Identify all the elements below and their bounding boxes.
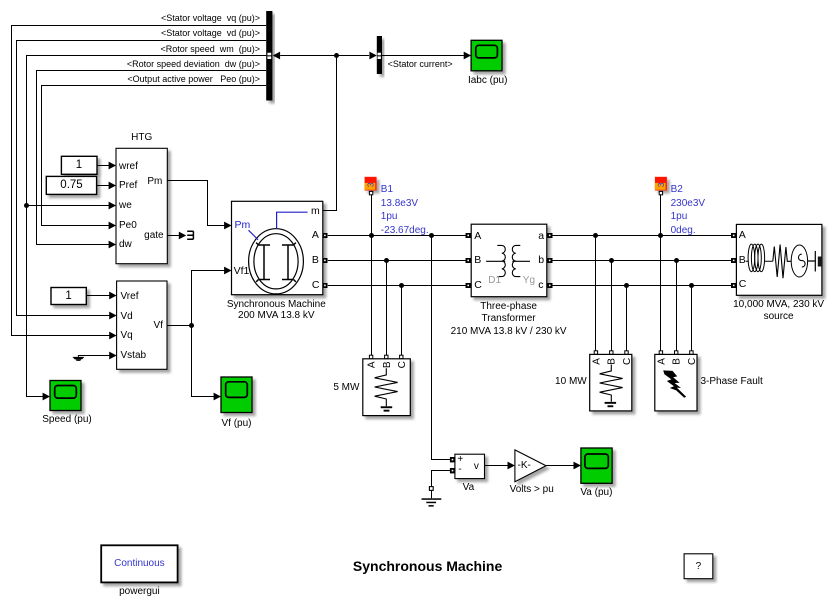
label signal vq [161,12,260,25]
svg-text:A: A [656,358,667,365]
constant Pref 0.75 [46,176,96,194]
scope Vf [221,377,252,413]
block three-phase fault [655,354,698,411]
pin source C [739,278,747,291]
node B/5MW junction [384,258,389,263]
wire phase b transformer to source [552,260,731,262]
constant wref 1 [61,156,97,174]
wire vd (bus selector out 2 to excitation Vd) [17,41,267,316]
block help ? [684,554,713,579]
arrow into excitation Vstab [109,352,116,360]
arrow into excitation Vref [109,292,116,300]
block B1 load flow bus [365,177,377,191]
ground G1 (Vstab) [72,357,84,361]
arrowheads [43,52,581,470]
wire machine m to bus selectors [280,56,369,211]
port transformer A [466,233,472,238]
node A/B1 junction [369,233,374,238]
scope Va pu [581,448,612,483]
wire B2 tap to fault A [660,195,662,351]
wire tap to 5MW load C [401,286,403,356]
label transformer line2 [482,312,536,325]
wire phase B machine to transformer [328,260,466,262]
arrow into HTG Pref [109,182,116,190]
wire wm (bus selector out 3 to HTG we and Speed scope) [27,56,267,397]
node Vf junction [189,323,194,328]
pin transformer b [538,254,544,267]
label Va [463,481,475,494]
pin HTG Pref [119,179,137,192]
label winding Yg [523,274,535,287]
port transformer a [547,233,553,238]
block B2 load flow bus [655,177,667,191]
port fault B [675,351,678,354]
label signal wm [160,43,260,56]
arrow into bus selector 2 [369,52,376,60]
pin machine m [311,205,320,218]
port B2 [659,191,662,194]
pin source B [739,254,746,267]
svg-text:C: C [397,361,408,368]
port transformer b [547,258,553,263]
pin HTG wref [119,160,138,173]
pin machine C [312,279,320,292]
label signal vd [161,27,260,40]
value gain -K- [518,459,531,472]
wire const Vref to excitation [86,295,110,297]
label 5MW [333,381,359,394]
value Vref 1 [65,290,71,303]
port 10MW A [594,351,597,354]
wire HTG gate to terminator [167,235,179,237]
node A/Va junction [429,233,434,238]
pin Va minus [458,463,461,476]
scope Iabc [471,40,502,71]
arrow into terminator [179,232,186,240]
label gain [510,483,554,496]
bus selector 2 [377,36,382,74]
port source B [731,258,737,263]
label Iabc scope [468,74,507,87]
node c/fault junction [689,283,694,288]
arrow into HTG dw [109,241,116,249]
block Va voltage measurement [455,454,485,478]
svg-text:B: B [672,358,683,365]
port fault C [690,351,693,354]
wire HTG Pm to machine Pm [167,181,224,226]
block source 10000MVA [736,224,822,295]
wire tap to 5MW load B [386,261,388,356]
wire bus selector 2 to Iabc scope [382,55,464,57]
value Pref 0.75 [60,179,82,192]
svg-text:B: B [607,358,618,365]
port machine A [323,233,328,238]
pin Va plus [457,453,463,466]
label transformer line3 [451,325,567,338]
svg-text:A: A [367,361,378,368]
arrow into gain [508,462,515,470]
block synchronous machine [232,201,323,294]
block three-phase transformer [471,224,547,297]
port Va plus [450,457,455,462]
wire tap to 10MW load C [626,286,628,351]
value wref 1 [76,159,82,172]
svg-text:3: 3 [656,182,666,187]
pin machine B [312,254,319,267]
port Va minus [450,468,455,473]
pin transformer B [474,254,481,267]
block powergui [101,545,177,582]
wire phase C machine to transformer [328,285,466,287]
arrow into machine Vf1 [224,267,231,275]
svg-text:C: C [622,358,633,365]
block 10MW load [590,354,633,411]
arrow into HTG wref [109,162,116,170]
pin source A [739,229,746,242]
label 10MW [555,375,587,388]
label winding D1 [488,274,501,287]
label machine line1 [227,298,326,311]
port 10MW C [625,351,628,354]
pin HTG dw [119,238,132,251]
port transformer B [466,258,472,263]
pin transformer C [474,279,482,292]
svg-text:B: B [382,361,393,368]
wire phase A machine to transformer [328,235,466,237]
port 5MW A [369,355,372,358]
port 5MW B [385,355,388,358]
label Speed scope [42,413,91,426]
port machine B [323,258,328,263]
node a/10MW junction [593,233,598,238]
wire tap to fault C [691,286,693,351]
label Va scope [580,486,612,499]
gain Volts to pu [515,450,546,482]
port transformer C [466,283,472,288]
pin HTG we [119,199,132,212]
label B1 values [381,183,429,237]
svg-text:3: 3 [366,182,376,187]
arrow into Vf scope [214,393,221,401]
pin excitation Vq [121,329,133,342]
ground G2 (Va minus) [422,487,442,507]
scope Speed [50,381,81,411]
label powergui [119,585,160,598]
terminator T1 (gate) [187,231,193,239]
label transformer line1 [480,300,537,313]
arrow into machine Pm [224,222,231,230]
constant Vref 1 [51,288,86,305]
wire const wref to HTG [97,165,109,167]
pin excitation Vref [121,290,139,303]
node b/fault junction [674,258,679,263]
arrow into Speed scope [43,393,50,401]
pin excitation Vstab [121,349,147,362]
pin machine A [312,229,319,242]
arrow into excitation Vd [109,312,116,320]
label stator current [388,58,453,71]
port B1 [369,191,372,194]
arrow into bus selector 1 [273,52,280,60]
wire tap to 10MW load A [595,236,597,351]
wire phase a transformer to source [552,235,731,237]
wire phase c transformer to source [552,285,731,287]
pin excitation Vd [121,310,133,323]
wire tap phase A to Va plus [432,236,450,460]
port fault A [659,351,662,354]
arrow into Va scope [574,462,581,470]
port source A [731,233,737,238]
wire ground to excitation Vstab [78,356,109,357]
pin HTG Pe0 [119,219,137,232]
port machine C [323,283,328,288]
value powergui Continuous [114,557,165,570]
pin excitation Vf [154,319,163,332]
block 5MW load [363,359,411,416]
node b/10MW junction [609,258,614,263]
wire vq (bus selector out 1 to excitation Vq) [12,26,267,336]
label HTG title [131,131,152,144]
wire gain to Va scope [546,465,574,467]
pin machine Vf1 [234,265,250,278]
pin HTG Pm [147,175,162,188]
wire Va minus to ground [432,471,450,499]
node m line junction [334,53,339,58]
label help [696,560,702,573]
block excitation system [117,281,167,369]
pin transformer A [474,230,481,243]
label signal Peo [127,73,260,86]
wire const Pref to HTG [97,185,110,187]
label signal dw [127,58,260,71]
node wm/we junction [24,203,29,208]
svg-text:C: C [687,358,698,365]
pin HTG gate [144,229,163,242]
label title [353,560,502,573]
wire Peo (bus selector out 5 to HTG Pe0) [42,86,267,226]
port 10MW B [610,351,613,354]
wire Va v out to gain [485,465,508,467]
pin transformer c [538,279,543,292]
node a/B2/fault junction [658,233,663,238]
label source line1 [733,298,824,311]
port source C [731,283,737,288]
pin Va v [474,460,479,473]
label Vf scope [221,417,251,430]
label fault [701,375,763,388]
wire wm branch to HTG we [27,205,110,207]
wire tap to fault B [676,261,678,351]
wire tap to 10MW load B [611,261,613,351]
wire excitation Vf to machine Vf1 and Vf scope [167,271,224,397]
label source line2 [764,310,794,323]
arrow into Iabc scope [464,52,471,60]
node C/5MW junction [399,283,404,288]
port transformer c [547,283,553,288]
svg-text:A: A [591,358,602,365]
arrow into excitation Vq [109,332,116,340]
wire dw (bus selector out 4 to HTG dw) [37,71,267,245]
wire B1 tap to 5MW load A [371,195,373,355]
port 5MW C [400,355,403,358]
node c/10MW junction [624,283,629,288]
pin machine Pm blue [235,219,251,232]
label B2 values [671,183,705,237]
pin transformer a [538,230,544,243]
bus selector 1 [266,11,272,101]
label machine line2 [238,309,315,322]
arrow into HTG Pe0 [109,222,116,230]
arrow into HTG we [109,202,116,210]
block HTG [116,148,167,263]
